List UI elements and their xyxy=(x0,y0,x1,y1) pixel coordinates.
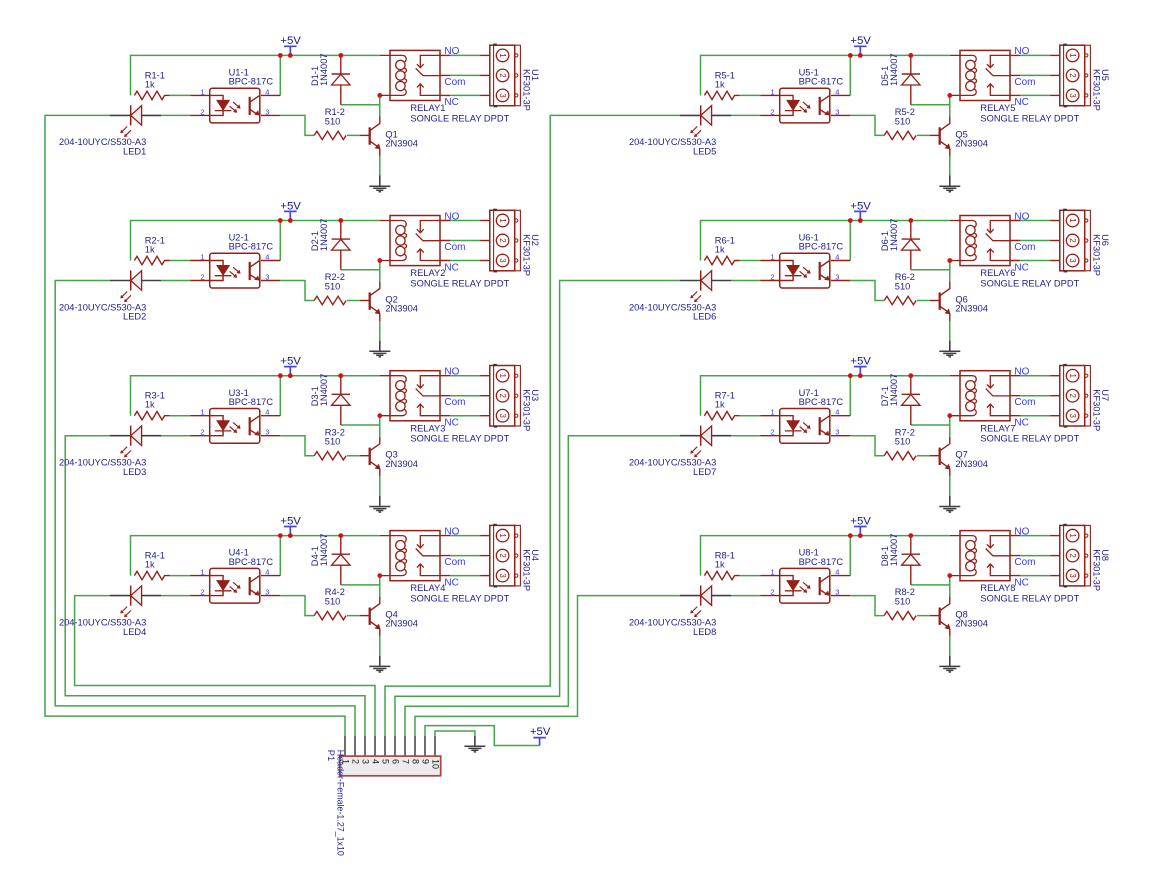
svg-text:1: 1 xyxy=(200,408,204,417)
svg-text:4: 4 xyxy=(835,408,839,417)
svg-text:KF301-3P: KF301-3P xyxy=(521,549,531,591)
svg-text:1N4007: 1N4007 xyxy=(319,534,329,567)
svg-text:4: 4 xyxy=(265,568,269,577)
svg-text:KF301-3P: KF301-3P xyxy=(521,389,531,431)
svg-text:2: 2 xyxy=(1068,73,1077,77)
svg-text:3: 3 xyxy=(1068,93,1077,98)
svg-text:KF301-3P: KF301-3P xyxy=(1091,389,1101,431)
svg-text:1: 1 xyxy=(200,252,204,261)
svg-text:+5V: +5V xyxy=(850,200,871,212)
svg-text:Com: Com xyxy=(1014,242,1035,253)
svg-text:Header-Female-1.27_1x10: Header-Female-1.27_1x10 xyxy=(336,750,346,856)
svg-text:NC: NC xyxy=(1014,577,1028,588)
svg-text:SONGLE RELAY DPDT: SONGLE RELAY DPDT xyxy=(980,434,1079,444)
svg-text:3: 3 xyxy=(498,414,507,419)
svg-text:1: 1 xyxy=(770,87,774,96)
svg-text:NC: NC xyxy=(444,418,458,429)
svg-text:LED7: LED7 xyxy=(693,467,716,477)
svg-text:4: 4 xyxy=(265,252,269,261)
svg-text:2: 2 xyxy=(770,428,774,437)
svg-text:KF301-3P: KF301-3P xyxy=(1091,549,1101,591)
svg-text:+5V: +5V xyxy=(280,200,301,212)
svg-text:2N3904: 2N3904 xyxy=(955,304,988,314)
svg-text:2: 2 xyxy=(1068,238,1077,242)
svg-text:2: 2 xyxy=(770,272,774,281)
svg-text:1k: 1k xyxy=(145,79,155,89)
svg-text:2N3904: 2N3904 xyxy=(955,459,988,469)
svg-text:1N4007: 1N4007 xyxy=(319,53,329,86)
svg-text:NO: NO xyxy=(444,526,459,537)
svg-text:RELAY3: RELAY3 xyxy=(410,423,445,433)
svg-text:2: 2 xyxy=(1068,394,1077,398)
svg-text:3: 3 xyxy=(835,272,839,281)
svg-text:2: 2 xyxy=(200,428,204,437)
svg-text:+5V: +5V xyxy=(530,726,551,738)
svg-text:NO: NO xyxy=(1014,211,1029,222)
svg-text:4: 4 xyxy=(370,759,380,764)
svg-text:Com: Com xyxy=(1014,397,1035,408)
svg-text:3: 3 xyxy=(265,272,269,281)
svg-text:6: 6 xyxy=(390,759,400,764)
svg-text:+5V: +5V xyxy=(850,356,871,368)
svg-text:1k: 1k xyxy=(715,79,725,89)
svg-text:2N3904: 2N3904 xyxy=(385,619,418,629)
svg-text:8: 8 xyxy=(410,759,420,764)
svg-text:2: 2 xyxy=(350,759,360,764)
svg-text:510: 510 xyxy=(325,116,341,126)
svg-text:1: 1 xyxy=(770,252,774,261)
svg-text:3: 3 xyxy=(498,93,507,98)
svg-text:1: 1 xyxy=(1068,374,1077,378)
svg-text:P1: P1 xyxy=(326,750,336,761)
svg-text:BPC-817C: BPC-817C xyxy=(229,77,274,87)
svg-text:BPC-817C: BPC-817C xyxy=(799,397,844,407)
svg-text:10: 10 xyxy=(430,759,440,769)
svg-text:510: 510 xyxy=(895,437,911,447)
svg-text:2N3904: 2N3904 xyxy=(955,139,988,149)
svg-text:NC: NC xyxy=(444,97,458,108)
svg-text:3: 3 xyxy=(265,588,269,597)
svg-text:+5V: +5V xyxy=(280,35,301,47)
svg-text:+5V: +5V xyxy=(280,515,301,527)
svg-text:BPC-817C: BPC-817C xyxy=(229,557,274,567)
svg-text:LED3: LED3 xyxy=(123,467,146,477)
svg-text:1N4007: 1N4007 xyxy=(889,374,899,407)
svg-text:3: 3 xyxy=(1068,414,1077,419)
svg-text:LED4: LED4 xyxy=(123,627,146,637)
svg-text:NO: NO xyxy=(1014,367,1029,378)
svg-text:BPC-817C: BPC-817C xyxy=(799,77,844,87)
svg-text:510: 510 xyxy=(895,597,911,607)
svg-text:1k: 1k xyxy=(715,560,725,570)
svg-text:RELAY7: RELAY7 xyxy=(980,423,1015,433)
svg-text:2: 2 xyxy=(200,272,204,281)
svg-text:1: 1 xyxy=(498,533,507,537)
svg-text:7: 7 xyxy=(400,759,410,764)
svg-text:RELAY4: RELAY4 xyxy=(410,583,445,593)
svg-text:1: 1 xyxy=(1068,218,1077,222)
svg-text:RELAY5: RELAY5 xyxy=(980,103,1015,113)
svg-text:Com: Com xyxy=(444,397,465,408)
svg-text:SONGLE RELAY DPDT: SONGLE RELAY DPDT xyxy=(410,434,509,444)
svg-text:510: 510 xyxy=(325,282,341,292)
svg-text:510: 510 xyxy=(325,597,341,607)
svg-text:NC: NC xyxy=(444,577,458,588)
svg-text:LED8: LED8 xyxy=(693,627,716,637)
svg-text:3: 3 xyxy=(835,107,839,116)
svg-text:1k: 1k xyxy=(145,400,155,410)
svg-text:3: 3 xyxy=(835,428,839,437)
svg-text:+5V: +5V xyxy=(850,515,871,527)
svg-text:5: 5 xyxy=(380,759,390,764)
svg-text:NC: NC xyxy=(1014,418,1028,429)
svg-text:510: 510 xyxy=(325,437,341,447)
svg-text:2: 2 xyxy=(770,107,774,116)
svg-text:1k: 1k xyxy=(145,245,155,255)
svg-text:NC: NC xyxy=(444,262,458,273)
svg-text:KF301-3P: KF301-3P xyxy=(1091,234,1101,276)
svg-text:1N4007: 1N4007 xyxy=(319,219,329,252)
svg-text:2N3904: 2N3904 xyxy=(385,139,418,149)
svg-text:Com: Com xyxy=(444,557,465,568)
svg-text:LED1: LED1 xyxy=(123,147,146,157)
svg-text:1: 1 xyxy=(1068,533,1077,537)
svg-text:Com: Com xyxy=(444,242,465,253)
svg-text:1: 1 xyxy=(498,374,507,378)
svg-text:Com: Com xyxy=(444,77,465,88)
svg-text:1: 1 xyxy=(498,218,507,222)
svg-text:3: 3 xyxy=(265,428,269,437)
svg-text:2: 2 xyxy=(200,588,204,597)
svg-text:2: 2 xyxy=(1068,553,1077,557)
svg-text:RELAY1: RELAY1 xyxy=(410,103,445,113)
svg-text:SONGLE RELAY DPDT: SONGLE RELAY DPDT xyxy=(980,594,1079,604)
svg-text:2: 2 xyxy=(770,588,774,597)
svg-text:SONGLE RELAY DPDT: SONGLE RELAY DPDT xyxy=(410,113,509,123)
svg-text:SONGLE RELAY DPDT: SONGLE RELAY DPDT xyxy=(980,278,1079,288)
svg-text:2N3904: 2N3904 xyxy=(385,459,418,469)
svg-text:510: 510 xyxy=(895,116,911,126)
svg-text:1N4007: 1N4007 xyxy=(889,219,899,252)
svg-text:NO: NO xyxy=(444,46,459,57)
svg-text:2: 2 xyxy=(498,394,507,398)
svg-text:2: 2 xyxy=(200,107,204,116)
svg-text:Com: Com xyxy=(1014,77,1035,88)
svg-text:NO: NO xyxy=(444,367,459,378)
svg-text:4: 4 xyxy=(835,568,839,577)
svg-text:3: 3 xyxy=(265,107,269,116)
svg-text:3: 3 xyxy=(835,588,839,597)
svg-text:3: 3 xyxy=(1068,573,1077,578)
svg-text:KF301-3P: KF301-3P xyxy=(521,234,531,276)
svg-text:LED6: LED6 xyxy=(693,312,716,322)
svg-text:LED5: LED5 xyxy=(693,147,716,157)
svg-text:NO: NO xyxy=(444,211,459,222)
svg-text:1N4007: 1N4007 xyxy=(319,374,329,407)
svg-text:NC: NC xyxy=(1014,262,1028,273)
svg-text:BPC-817C: BPC-817C xyxy=(799,242,844,252)
svg-text:3: 3 xyxy=(1068,258,1077,263)
svg-text:1: 1 xyxy=(200,568,204,577)
svg-text:RELAY6: RELAY6 xyxy=(980,268,1015,278)
svg-text:NO: NO xyxy=(1014,526,1029,537)
svg-text:3: 3 xyxy=(498,573,507,578)
svg-text:1: 1 xyxy=(770,408,774,417)
svg-text:NO: NO xyxy=(1014,46,1029,57)
svg-text:1N4007: 1N4007 xyxy=(889,53,899,86)
svg-text:1: 1 xyxy=(770,568,774,577)
svg-text:RELAY2: RELAY2 xyxy=(410,268,445,278)
svg-text:2: 2 xyxy=(498,553,507,557)
svg-text:1: 1 xyxy=(1068,53,1077,57)
svg-text:SONGLE RELAY DPDT: SONGLE RELAY DPDT xyxy=(410,278,509,288)
svg-text:510: 510 xyxy=(895,282,911,292)
svg-text:3: 3 xyxy=(498,258,507,263)
svg-text:2N3904: 2N3904 xyxy=(385,304,418,314)
svg-text:2: 2 xyxy=(498,73,507,77)
svg-text:4: 4 xyxy=(265,408,269,417)
svg-text:3: 3 xyxy=(360,759,370,764)
svg-text:BPC-817C: BPC-817C xyxy=(229,397,274,407)
svg-text:4: 4 xyxy=(835,87,839,96)
svg-text:NC: NC xyxy=(1014,97,1028,108)
svg-text:BPC-817C: BPC-817C xyxy=(229,242,274,252)
svg-text:KF301-3P: KF301-3P xyxy=(1091,69,1101,111)
svg-text:4: 4 xyxy=(835,252,839,261)
svg-text:1k: 1k xyxy=(145,560,155,570)
svg-text:9: 9 xyxy=(420,759,430,764)
svg-text:KF301-3P: KF301-3P xyxy=(521,69,531,111)
svg-text:SONGLE RELAY DPDT: SONGLE RELAY DPDT xyxy=(410,594,509,604)
svg-text:1k: 1k xyxy=(715,400,725,410)
svg-text:+5V: +5V xyxy=(850,35,871,47)
svg-text:1k: 1k xyxy=(715,245,725,255)
svg-text:1N4007: 1N4007 xyxy=(889,534,899,567)
svg-text:1: 1 xyxy=(200,87,204,96)
svg-text:RELAY8: RELAY8 xyxy=(980,583,1015,593)
svg-text:Com: Com xyxy=(1014,557,1035,568)
svg-text:BPC-817C: BPC-817C xyxy=(799,557,844,567)
svg-text:+5V: +5V xyxy=(280,356,301,368)
svg-text:4: 4 xyxy=(265,87,269,96)
svg-text:SONGLE RELAY DPDT: SONGLE RELAY DPDT xyxy=(980,113,1079,123)
svg-text:2N3904: 2N3904 xyxy=(955,619,988,629)
svg-text:LED2: LED2 xyxy=(123,312,146,322)
svg-text:1: 1 xyxy=(498,53,507,57)
svg-text:2: 2 xyxy=(498,238,507,242)
